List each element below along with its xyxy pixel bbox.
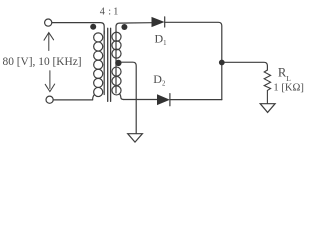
wire secondary bottom to diode D2	[124, 99, 158, 101]
wire node to resistor RL	[225, 62, 268, 70]
voltage arrow up	[44, 33, 54, 51]
ground left	[128, 134, 143, 142]
polarity dot primary	[90, 24, 96, 30]
ground right	[260, 104, 275, 113]
transformer core	[108, 28, 111, 101]
wire top-left rail to primary	[52, 23, 104, 34]
svg-text:80 [V], 10 [KHz]: 80 [V], 10 [KHz]	[3, 56, 82, 68]
svg-text:4:1: 4:1	[100, 7, 119, 18]
wire D2 to node vertical	[170, 99, 222, 101]
diode D1	[152, 17, 165, 27]
polarity dot secondary	[121, 24, 127, 30]
wire bottom rail to primary	[53, 99, 92, 101]
wire D1 to output node	[165, 22, 222, 99]
svg-text:D1: D1	[155, 32, 167, 47]
transformer secondary winding	[112, 31, 124, 100]
resistor RL	[264, 70, 270, 103]
svg-text:RL: RL	[278, 66, 291, 83]
transformer primary winding	[93, 31, 105, 100]
voltage arrow down	[45, 71, 55, 92]
terminal T1 top-left	[45, 19, 52, 26]
wire center tap to ground	[121, 62, 136, 133]
diode D2	[158, 94, 170, 106]
center tap dot	[115, 60, 121, 66]
node junction dot	[219, 60, 225, 66]
svg-text:D2: D2	[153, 72, 166, 87]
wire secondary top to diode D1	[116, 23, 152, 33]
terminal T2 bottom-left	[46, 96, 53, 103]
svg-text:1 [KΩ]: 1 [KΩ]	[273, 83, 304, 94]
